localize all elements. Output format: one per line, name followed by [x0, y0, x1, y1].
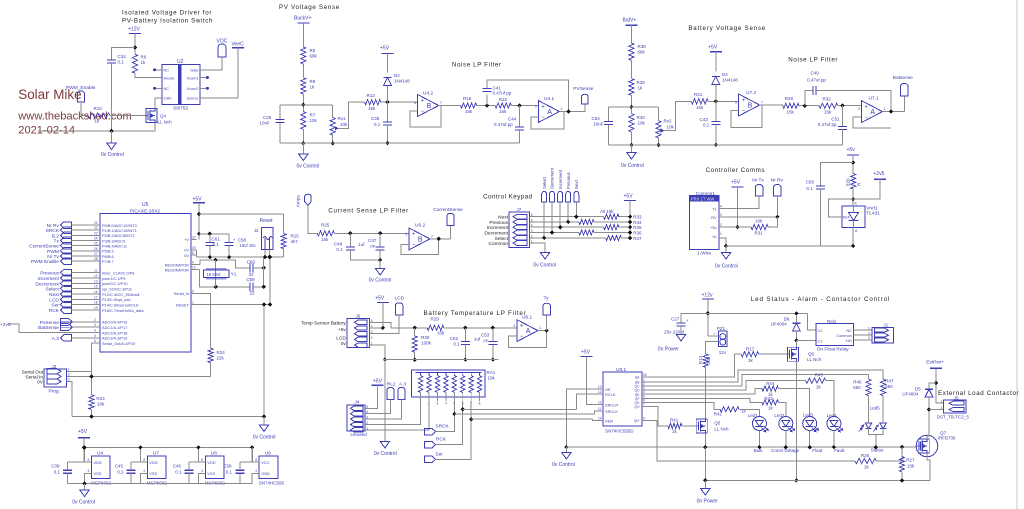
svg-text:BuckV+: BuckV+: [294, 16, 311, 22]
wire keypad flag drop 1: [575, 202, 577, 217]
ground 0v control (reg): [80, 490, 89, 497]
svg-text:ADC3/A.3/P19: ADC3/A.3/P19: [102, 336, 127, 341]
svg-text:J1: J1: [883, 323, 888, 328]
svg-text:16 MHz: 16 MHz: [207, 272, 221, 277]
wire 0v pin: [719, 238, 726, 246]
wire to R29: [415, 327, 427, 329]
svg-text:PWM Enable: PWM Enable: [31, 259, 59, 265]
junction: [378, 258, 382, 262]
junction: [714, 99, 718, 103]
svg-text:R8: R8: [310, 79, 316, 84]
svg-text:0v Control: 0v Control: [297, 163, 320, 169]
junction: [851, 160, 855, 164]
pin Common (J7): [489, 241, 509, 247]
pin numbers RA1: [420, 402, 481, 406]
pin Vcom1: [187, 76, 199, 80]
label Rel1: [827, 319, 837, 324]
wire NrRv to pin: [719, 196, 777, 217]
svg-text:1-Wire: 1-Wire: [697, 251, 711, 257]
wire C35 down: [387, 125, 389, 143]
svg-text:SRCLR: SRCLR: [605, 402, 618, 407]
label D8: [784, 317, 790, 322]
wire amps to R25: [308, 205, 317, 233]
svg-text:−: −: [412, 242, 416, 248]
label J2: [254, 228, 259, 233]
svg-text:C56: C56: [806, 180, 815, 185]
resistor R5: [301, 47, 306, 64]
connector flag PvSense: [60, 318, 72, 325]
resistor R10: [88, 113, 110, 118]
svg-text:LL Nch: LL Nch: [714, 427, 729, 432]
node B.2: [52, 233, 60, 239]
pin VCC U9: [255, 458, 269, 465]
wire R10 to Q4 gate: [110, 115, 144, 117]
svg-text:U5: U5: [142, 202, 149, 208]
wire reset row: [191, 304, 270, 306]
svg-text:U6: U6: [211, 451, 217, 457]
wire Q4 source to 0v rail: [38, 123, 155, 132]
wire R12 to opamp: [381, 101, 418, 103]
svg-text:3: 3: [858, 107, 860, 111]
label R30: [421, 335, 430, 340]
svg-text:J7: J7: [517, 207, 522, 212]
svg-text:Select: Select: [495, 236, 509, 242]
pin 0V (J3): [37, 380, 44, 386]
svg-text:0.1: 0.1: [453, 342, 460, 347]
label D4: [722, 72, 728, 77]
svg-text:NO: NO: [846, 339, 852, 343]
junction: [452, 412, 456, 416]
wire flag Increment: [71, 277, 93, 279]
wire 0v pins: [196, 250, 198, 257]
ic U8.1 74HC595: [603, 372, 642, 426]
junction: [628, 236, 632, 240]
label R27: [906, 458, 915, 463]
wire U7 vss: [140, 473, 147, 483]
wire 5v top to R9: [199, 213, 284, 215]
svg-text:0v Control: 0v Control: [374, 451, 397, 457]
power +5V bar (pic): [193, 202, 205, 204]
svg-text:REF: REF: [843, 216, 850, 220]
wire 5v to SRCLR: [586, 356, 597, 404]
svg-text:VeeC: VeeC: [232, 42, 245, 48]
label Comms1: [696, 191, 716, 197]
svg-text:EvtPwr+: EvtPwr+: [926, 359, 944, 365]
connector flag keypad Next: [574, 192, 579, 203]
wire reset pullup drop: [269, 257, 271, 304]
svg-text:15k: 15k: [824, 110, 832, 115]
junction: [550, 230, 554, 234]
node CurrentSense: [433, 207, 463, 213]
junction: [491, 326, 495, 330]
capacitor C49: [813, 86, 816, 95]
connector flag Increment: [60, 275, 71, 281]
label U8.1: [616, 367, 626, 373]
svg-text:100k: 100k: [421, 341, 432, 346]
svg-text:9: 9: [643, 416, 645, 420]
wire buckv down: [302, 23, 304, 47]
svg-text:27: 27: [94, 252, 98, 256]
wire J3 0v: [67, 382, 72, 417]
pin Tx (comms): [712, 208, 716, 212]
wire to 595 ground: [565, 447, 567, 452]
pin U6.2 +: [405, 232, 407, 236]
label U6: [211, 451, 217, 457]
section title External Load Contactor: [938, 390, 1019, 397]
svg-text:C51: C51: [831, 117, 840, 122]
svg-text:−: −: [421, 109, 425, 115]
label Rref r: [857, 182, 862, 186]
svg-text:10k: 10k: [755, 219, 763, 224]
label C28: [263, 115, 272, 120]
resistor R17: [741, 352, 759, 357]
wire Q6 drain: [795, 340, 797, 347]
svg-text:1k: 1k: [141, 60, 147, 65]
svg-text:U7.1: U7.1: [869, 96, 879, 102]
svg-text:Vcom2: Vcom2: [187, 87, 199, 91]
wire QG to R42: [648, 403, 721, 410]
svg-text:15: 15: [643, 373, 647, 377]
wire 0v rail (pic): [197, 256, 284, 258]
pin stub resonator1: [197, 264, 200, 266]
junction: [656, 143, 660, 147]
pin VSS U7: [143, 469, 157, 476]
wire SRCK bus: [454, 413, 594, 415]
svg-text:Increment: Increment: [558, 169, 563, 189]
connector J5: [944, 400, 966, 413]
wire C45 top: [130, 462, 132, 470]
wire flag PWM: [71, 250, 93, 252]
svg-text:0.1: 0.1: [374, 122, 381, 127]
pin stub resonator2: [197, 269, 200, 271]
value C41: [493, 91, 512, 96]
svg-text:Unused: Unused: [350, 432, 367, 438]
junction: [794, 311, 798, 315]
ic Comms1 box: [690, 196, 720, 250]
svg-text:3: 3: [94, 323, 96, 327]
junction: [197, 232, 201, 236]
label R38: [638, 44, 647, 49]
svg-text:0.1: 0.1: [54, 470, 61, 475]
label R22: [499, 97, 508, 102]
wire R46 to led5a: [868, 396, 870, 424]
svg-text:Decrement: Decrement: [35, 281, 59, 287]
wire gate end: [915, 446, 917, 448]
capacitor C52: [461, 341, 470, 344]
wire U4.2 feedback: [410, 106, 441, 128]
svg-text:13: 13: [94, 279, 98, 283]
value R7: [310, 118, 318, 123]
resistor R27: [899, 457, 904, 472]
wire J6 0v: [370, 345, 385, 360]
wire J3 pin1: [67, 370, 92, 372]
wire R27 bottom: [901, 472, 903, 481]
svg-text:Cath: Cath: [164, 97, 172, 101]
svg-text:A.3: A.3: [52, 336, 60, 342]
svg-text:P15/C.7/hserin/i2c_data: P15/C.7/hserin/i2c_data: [102, 308, 144, 313]
resistor R31: [751, 225, 768, 230]
value D8: [771, 322, 788, 327]
label C52: [450, 336, 459, 341]
svg-text:1: 1: [868, 326, 870, 330]
wire common to ground: [530, 243, 545, 252]
label C46: [173, 464, 182, 469]
svg-text:1N4148: 1N4148: [722, 78, 738, 83]
power +5V label (reg): [78, 429, 88, 435]
svg-text:5: 5: [735, 101, 737, 105]
svg-text:7: 7: [643, 403, 645, 407]
value C44: [494, 122, 513, 127]
wire R820 to TL431: [852, 189, 854, 206]
label J7: [517, 207, 522, 212]
pin U7.1 +: [858, 107, 860, 111]
wire R39 down: [630, 95, 632, 113]
svg-text:C48: C48: [334, 242, 343, 247]
wire +2v5 to ADC2: [9, 324, 94, 332]
label C43: [700, 117, 709, 122]
svg-text:Battery Temperature LP Filter: Battery Temperature LP Filter: [424, 310, 527, 317]
label R28: [785, 96, 794, 101]
svg-text:25: 25: [94, 242, 98, 246]
wire keypad row R35: [530, 226, 604, 228]
svg-text:ADC0/A.0/P16: ADC0/A.0/P16: [102, 320, 127, 325]
resistor R36: [579, 230, 594, 235]
pin U7.1 out: [884, 107, 886, 111]
junction: [227, 255, 231, 259]
value C58: [226, 470, 233, 475]
svg-text:10k: 10k: [667, 125, 675, 130]
wire flag B.2: [71, 234, 93, 236]
connector flag Tx: [60, 237, 71, 244]
wire reset to bottom rail: [263, 305, 265, 417]
svg-text:B.2: B.2: [52, 233, 60, 239]
resistor R12: [365, 100, 381, 105]
wire OE to gnd: [566, 389, 597, 447]
svg-text:4: 4: [445, 402, 447, 406]
capacitor C59: [250, 282, 253, 291]
svg-text:VDD: VDD: [149, 460, 157, 465]
pin number 2: [720, 223, 722, 227]
wire pic bottom rail: [72, 416, 264, 418]
junction: [82, 445, 86, 449]
wire VeeC to source: [200, 48, 238, 98]
junction: [208, 232, 212, 236]
resistor R26: [855, 458, 876, 463]
value D2: [394, 79, 410, 84]
led Led2: [779, 417, 795, 433]
node keypad Increment (vertical): [558, 169, 563, 189]
wire to ground: [111, 131, 113, 143]
pin U6.2 out: [431, 234, 433, 238]
resistor R28: [783, 103, 799, 108]
label Led3: [803, 413, 814, 418]
pin A: [855, 229, 858, 233]
wire SRCK to SRCLK: [595, 411, 598, 414]
wire LCD flag to J6: [370, 315, 399, 334]
power +5V label (595): [581, 350, 591, 356]
wire U4.2 out to R18: [439, 105, 461, 107]
label R35: [633, 225, 642, 230]
value C38: [54, 470, 61, 475]
svg-text:LCD: LCD: [395, 295, 405, 301]
svg-text:10k: 10k: [437, 331, 445, 336]
connector flag keypad Select: [542, 192, 547, 203]
resistor R6: [132, 54, 137, 73]
svg-text:R25: R25: [321, 223, 330, 228]
svg-text:Led Status - Alarm - Contactor: Led Status - Alarm - Contactor Control: [751, 296, 890, 303]
svg-text:DST_TB-TC2_5: DST_TB-TC2_5: [937, 415, 970, 420]
section title isolated driver line1: [122, 9, 212, 16]
value R31 10k: [755, 219, 763, 224]
ground 0n power (main): [701, 489, 710, 496]
wire R38-R39: [630, 60, 632, 78]
junction: [564, 445, 568, 449]
svg-text:PV Voltage Sense: PV Voltage Sense: [279, 4, 340, 11]
svg-text:SER: SER: [605, 418, 613, 423]
wire R9 top: [283, 214, 285, 233]
svg-text:B: B: [748, 103, 753, 110]
wire Q7 drain up: [927, 410, 929, 440]
pin U4.1 +: [535, 105, 537, 109]
pin Common: [836, 334, 851, 338]
connector flag Nr Tx: [755, 185, 763, 197]
svg-text:Current Sense LP Filter: Current Sense LP Filter: [328, 208, 409, 215]
svg-text:Noise LP Filter: Noise LP Filter: [788, 57, 838, 64]
wire flag CurrentSense: [71, 245, 93, 247]
connector J1: [872, 327, 894, 343]
label 0v Control (bat): [621, 163, 644, 169]
node keypad Previous (vertical): [566, 172, 571, 189]
label R10: [94, 106, 103, 111]
wire PZ1 to R13: [706, 342, 715, 354]
wire to C53: [492, 328, 494, 342]
wire Bulk led cathode: [758, 431, 760, 448]
op-amp U4.2: [418, 95, 439, 117]
wire Q4 drain to cath: [154, 98, 156, 109]
led Led4: [827, 417, 843, 433]
junction: [463, 358, 467, 362]
label R43: [764, 396, 773, 401]
junction: [301, 141, 305, 145]
wire led5 common: [869, 429, 884, 435]
power +5V bar (J4): [372, 384, 384, 386]
junction: [851, 197, 855, 201]
wire resonator top loop: [200, 260, 236, 265]
wire U6 vdd: [198, 448, 205, 463]
svg-text:0.1: 0.1: [226, 470, 233, 475]
label J4: [355, 400, 360, 405]
svg-text:VSS: VSS: [149, 471, 157, 476]
wire box left lower: [279, 123, 281, 144]
wire flag Next: [71, 293, 93, 295]
section title Noise LP Filter (bat): [788, 57, 838, 64]
label U5: [142, 202, 149, 208]
wire keypad flag drop 5: [543, 202, 545, 238]
label R21: [694, 92, 703, 97]
pins U5 right: [165, 235, 197, 307]
junction: [208, 255, 212, 259]
buzzer PZ1: [713, 331, 727, 346]
svg-text:GND: GND: [261, 471, 270, 476]
svg-text:560: 560: [885, 384, 893, 389]
svg-text:QH: QH: [635, 405, 641, 409]
value R12: [368, 106, 376, 111]
svg-text:+: +: [686, 318, 689, 323]
node LCD (temp): [395, 295, 405, 301]
junction: [301, 103, 305, 107]
svg-text:23: 23: [94, 231, 98, 235]
svg-text:3: 3: [535, 105, 537, 109]
transistor Q7: [916, 435, 938, 457]
value U2 SI8752: [173, 106, 189, 112]
wire U9 vss: [252, 473, 259, 483]
wire 5v down (reg): [83, 438, 85, 462]
svg-text:MCP6002: MCP6002: [91, 481, 112, 486]
wire R22 to U4.1: [511, 105, 538, 107]
label U7: [153, 451, 159, 457]
resistor R42: [720, 407, 739, 412]
wire led ground rail: [566, 446, 916, 448]
label R8: [310, 79, 316, 84]
svg-text:R36: R36: [633, 231, 642, 236]
wire C45 down: [130, 473, 132, 483]
resistor R21: [691, 99, 708, 104]
capacitor C28: [276, 120, 285, 123]
wire up to C41: [486, 95, 488, 106]
ground 0v control (cs): [375, 269, 384, 276]
label Float: [812, 448, 823, 453]
svg-text:NC: NC: [164, 87, 170, 91]
label 0n Power (c27): [658, 347, 679, 353]
label U6.2: [415, 223, 425, 229]
svg-text:Next: Next: [498, 215, 509, 221]
label R47: [885, 379, 894, 384]
wire flag Nr Tv: [71, 255, 93, 257]
wire C61 down: [209, 246, 211, 258]
wire C52 down: [464, 344, 466, 359]
wire U7.2 feedback: [731, 105, 762, 127]
connector flag A.3: [60, 335, 71, 342]
wire reg bottom rail: [68, 483, 253, 485]
wire flag SRCK: [71, 229, 93, 231]
wire R7 down: [302, 129, 304, 143]
svg-text:3: 3: [437, 402, 439, 406]
svg-text:C45: C45: [115, 464, 124, 469]
power +5V label (J4): [373, 379, 383, 385]
pin stub NC1: [153, 68, 162, 71]
wire PWM_Enable: [81, 103, 88, 116]
power +5V label (pic): [193, 197, 203, 203]
wire to reg ground: [84, 484, 86, 490]
label R23: [96, 396, 105, 401]
value D4: [722, 78, 738, 83]
wire R40 down: [630, 132, 632, 145]
svg-text:−: −: [742, 109, 746, 115]
svg-text:+2v5: +2v5: [0, 322, 11, 328]
junction: [808, 445, 812, 449]
value PZ1 12v: [719, 350, 727, 355]
svg-text:+5V: +5V: [581, 350, 591, 356]
value C46: [175, 470, 182, 475]
svg-text:22: 22: [94, 226, 98, 230]
node LCD: [49, 297, 59, 303]
svg-text:On Float Relay: On Float Relay: [817, 347, 850, 353]
wire RL2 to J4: [365, 400, 390, 414]
transistor Q5: [694, 419, 707, 433]
svg-text:J2: J2: [254, 228, 259, 233]
wire to C48: [349, 233, 351, 247]
svg-text:NC: NC: [164, 69, 170, 73]
